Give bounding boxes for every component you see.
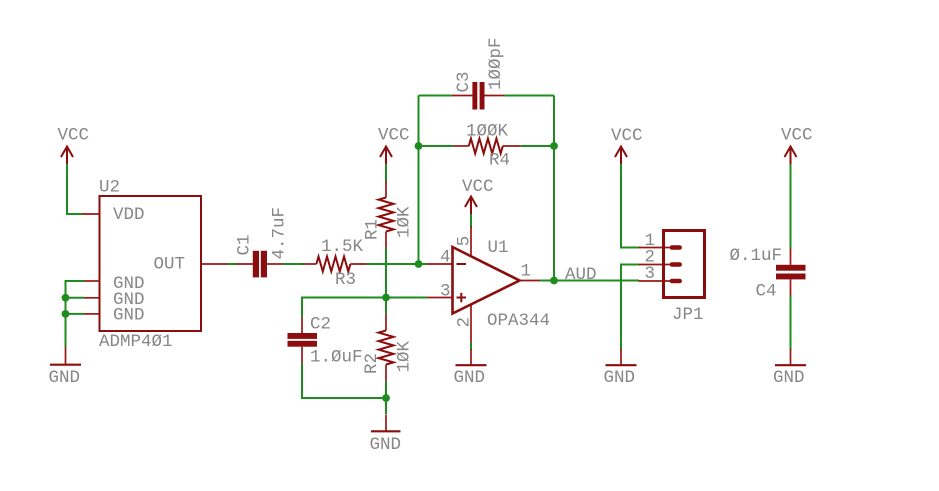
svg-text:1.5K: 1.5K: [321, 237, 364, 257]
U2 pin GND2 stub: [84, 297, 100, 299]
connector JP1: [639, 231, 705, 298]
junction dot R2/C2 bottom: [382, 394, 390, 402]
resistor R2: [362, 314, 415, 382]
wire R1 node to R2: [385, 298, 387, 314]
svg-text:VDD: VDD: [113, 205, 145, 225]
ground symbol (R2): [370, 415, 402, 455]
svg-text:JP1: JP1: [672, 305, 704, 325]
op-amp U1: [427, 226, 540, 343]
svg-text:GND: GND: [113, 306, 145, 326]
svg-text:GND: GND: [604, 368, 636, 388]
power symbol VCC (at R1): [378, 126, 410, 165]
ground symbol (JP1): [604, 349, 637, 388]
resistor R1: [363, 181, 415, 248]
wire R3 to opamp pin4: [367, 263, 427, 265]
svg-text:GND: GND: [49, 368, 81, 388]
svg-text:4: 4: [440, 248, 451, 268]
power symbol VCC (at U1): [462, 177, 494, 214]
junction dot node/pin4: [415, 260, 423, 268]
svg-text:R3: R3: [335, 270, 356, 290]
wire R4 left: [419, 145, 454, 147]
wire GND2 link: [66, 297, 85, 299]
svg-text:R2: R2: [362, 353, 382, 374]
ground symbol (U2): [49, 347, 82, 388]
ground symbol (C4): [773, 349, 806, 388]
svg-text:GND: GND: [370, 435, 402, 455]
svg-text:1ØØpF: 1ØØpF: [486, 37, 506, 90]
svg-text:R1: R1: [363, 219, 383, 240]
wire C2 bottom to R2 bottom: [302, 363, 386, 398]
svg-text:Ø.1uF: Ø.1uF: [730, 246, 783, 266]
wire VCC to U1 pin5: [470, 214, 472, 228]
wire node column C3/R4 to pin4: [418, 96, 420, 265]
wire GND3 link: [66, 313, 85, 315]
svg-text:GND: GND: [454, 368, 486, 388]
wire C3 right: [504, 95, 554, 97]
svg-text:3: 3: [645, 264, 656, 284]
svg-text:1ØØK: 1ØØK: [466, 122, 509, 142]
svg-text:1.ØuF: 1.ØuF: [310, 348, 363, 368]
junction dot GND1/GND2: [62, 294, 70, 302]
wire U2 OUT to C1: [228, 263, 237, 265]
wire feedback column right: [553, 96, 555, 281]
svg-text:OUT: OUT: [154, 255, 186, 275]
capacitor C2: [288, 315, 363, 368]
svg-text:OPA344: OPA344: [487, 311, 550, 331]
svg-text:GND: GND: [773, 368, 805, 388]
svg-text:1: 1: [521, 262, 532, 282]
svg-text:1ØK: 1ØK: [395, 206, 415, 238]
power symbol VCC (at JP1): [611, 126, 643, 164]
svg-text:VCC: VCC: [781, 126, 813, 146]
svg-text:1ØK: 1ØK: [395, 340, 415, 372]
svg-text:C3: C3: [454, 71, 474, 92]
wire R1 to pin3 node: [385, 248, 387, 298]
wire C3 left: [419, 95, 453, 97]
U2 pin GND1 stub: [84, 280, 100, 282]
svg-text:VCC: VCC: [462, 177, 494, 197]
capacitor C3: [452, 37, 506, 109]
svg-text:C1: C1: [235, 234, 255, 255]
svg-text:VCC: VCC: [58, 126, 90, 146]
wire JP1 pin2 to GND: [621, 265, 639, 351]
junction dot pin3/R1/R2: [382, 294, 390, 302]
svg-text:U1: U1: [488, 238, 509, 258]
svg-text:5: 5: [455, 236, 475, 247]
junction dot node/R4 left: [415, 142, 423, 150]
wire C4 to GND: [790, 296, 792, 350]
svg-text:R4: R4: [489, 151, 510, 171]
capacitor C4: [730, 246, 806, 302]
power symbol VCC (at C4): [781, 126, 813, 165]
junction dot GND2/GND3: [62, 310, 70, 318]
svg-text:AUD: AUD: [565, 265, 597, 285]
resistor R3: [303, 237, 367, 290]
ground symbol (U1): [454, 349, 487, 388]
wire VCC to U2 VDD: [67, 164, 83, 214]
svg-text:4.7uF: 4.7uF: [270, 207, 290, 260]
wire pin3 row to C2 top: [302, 298, 427, 318]
junction dot output/feedback: [550, 277, 558, 285]
svg-text:3: 3: [440, 282, 451, 302]
capacitor C1: [235, 207, 290, 277]
svg-text:VCC: VCC: [611, 126, 643, 146]
svg-text:VCC: VCC: [378, 126, 410, 146]
U2 pin GND3 stub: [84, 313, 100, 315]
wire R4 right: [521, 145, 554, 147]
U2 pin OUT stub: [201, 263, 228, 265]
wire VCC to R1: [385, 164, 387, 182]
wire U1 output to JP1 pin3 (AUD net): [540, 280, 639, 282]
U2 pin VDD stub: [82, 213, 100, 215]
wire VCC to C4: [790, 164, 792, 248]
wire U1 pin2 to GND: [470, 343, 472, 351]
svg-text:C2: C2: [310, 315, 331, 335]
svg-text:C4: C4: [756, 282, 777, 302]
junction dot R4 right: [550, 142, 558, 150]
svg-text:ADMP4Ø1: ADMP4Ø1: [99, 332, 173, 352]
resistor R4: [454, 122, 521, 171]
wire U2 GND pins bus: [66, 281, 85, 347]
microphone U2 body: [100, 196, 202, 331]
svg-text:U2: U2: [99, 178, 120, 198]
wire R2 to bottom node: [385, 382, 387, 415]
power symbol VCC (at U2): [58, 126, 90, 165]
svg-text:2: 2: [455, 317, 475, 328]
wire C1 to R3: [283, 263, 304, 265]
wire VCC to JP1 pin1: [621, 164, 639, 248]
